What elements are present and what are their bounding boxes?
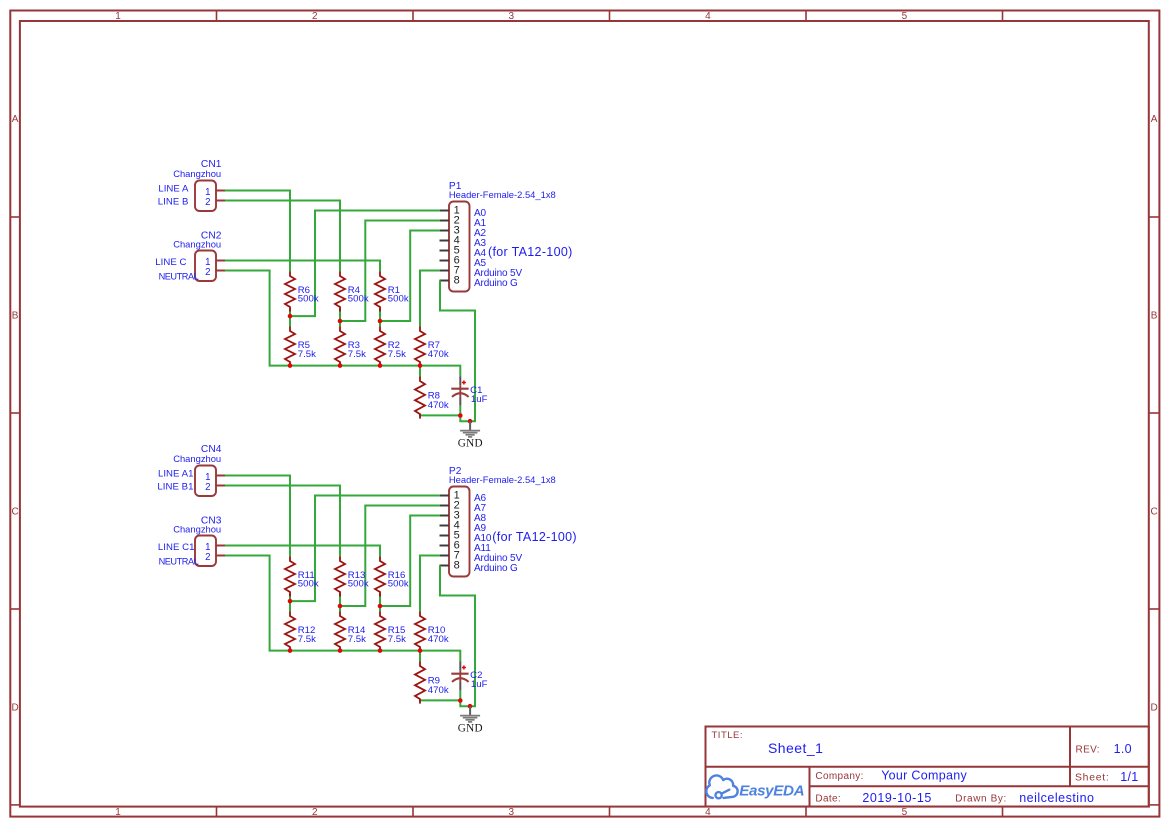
column tick 3 bottom bbox=[609, 807, 611, 817]
svg-text:LINE A: LINE A bbox=[158, 183, 189, 194]
svg-text:470k: 470k bbox=[428, 400, 449, 411]
column tick 1 bottom bbox=[216, 807, 218, 817]
svg-text:3: 3 bbox=[509, 11, 515, 22]
svg-text:7.5k: 7.5k bbox=[388, 349, 406, 360]
svg-text:500k: 500k bbox=[298, 579, 319, 590]
svg-text:1/1: 1/1 bbox=[1120, 770, 1138, 784]
svg-text:Changzhou: Changzhou bbox=[173, 239, 221, 250]
svg-text:1: 1 bbox=[115, 11, 121, 22]
junction bbox=[288, 648, 293, 653]
pin 7 of P1 bbox=[440, 270, 450, 272]
junction bbox=[378, 363, 383, 368]
capacitor C1 bbox=[459, 376, 461, 386]
svg-text:EasyEDA: EasyEDA bbox=[739, 782, 804, 799]
row tick B right bbox=[1149, 412, 1160, 414]
resistor R9 bbox=[415, 662, 425, 704]
junction bbox=[468, 419, 473, 424]
wire NEUTRAL to bottom rail bbox=[225, 556, 290, 651]
wire R1 lower lead bbox=[379, 309, 381, 327]
title block divider right of logo cell bbox=[809, 767, 811, 807]
connector CN2 bbox=[195, 251, 216, 282]
resistor R7 bbox=[415, 327, 425, 367]
wire LINE B1 to R13 bbox=[225, 486, 340, 557]
pin 2 of CN1 bbox=[216, 200, 225, 202]
svg-text:5: 5 bbox=[902, 807, 908, 818]
svg-text:2019-10-15: 2019-10-15 bbox=[862, 791, 931, 805]
wire P2 pin7 to R10 bbox=[420, 556, 440, 612]
resistor R16 bbox=[375, 557, 385, 597]
connector CN3 bbox=[195, 536, 216, 567]
svg-text:Sheet_1: Sheet_1 bbox=[768, 740, 823, 756]
svg-text:500k: 500k bbox=[388, 579, 409, 590]
title block divider left of REV column bbox=[1069, 727, 1071, 787]
pin 6 of P1 bbox=[440, 260, 450, 262]
svg-text:500k: 500k bbox=[298, 294, 319, 305]
column tick 4 top bbox=[805, 11, 807, 22]
pin 2 of P2 bbox=[440, 505, 450, 507]
wire LINE C1 to R16 bbox=[225, 546, 380, 557]
svg-text:470k: 470k bbox=[428, 634, 449, 645]
svg-text:Your Company: Your Company bbox=[881, 769, 967, 783]
junction bbox=[338, 648, 343, 653]
wire R8 to cap node bbox=[420, 414, 460, 417]
svg-text:2: 2 bbox=[205, 552, 210, 563]
svg-text:GND: GND bbox=[458, 723, 483, 735]
wire cap C1 bottom to ground node bbox=[460, 406, 470, 422]
wire P1 pin3 to node bbox=[380, 231, 440, 322]
junction bbox=[288, 599, 293, 604]
wire NEUTRAL to bottom rail bbox=[225, 271, 290, 366]
svg-text:Header-Female-2.54_1x8: Header-Female-2.54_1x8 bbox=[449, 189, 556, 200]
svg-text:Header-Female-2.54_1x8: Header-Female-2.54_1x8 bbox=[449, 474, 556, 485]
header P1 bbox=[449, 202, 470, 292]
svg-text:B: B bbox=[12, 311, 19, 322]
wire LINE B to R4 bbox=[225, 201, 340, 272]
resistor R5 bbox=[285, 327, 295, 367]
pin 5 of P2 bbox=[440, 535, 450, 537]
resistor R14 bbox=[335, 612, 345, 652]
svg-text:1: 1 bbox=[115, 807, 121, 818]
junction bbox=[458, 698, 463, 703]
svg-text:4: 4 bbox=[705, 11, 711, 22]
svg-text:LINE A1: LINE A1 bbox=[158, 468, 194, 479]
resistor R1 bbox=[375, 272, 385, 312]
pin 2 of CN3 bbox=[216, 555, 225, 557]
pin 1 of CN1 bbox=[216, 190, 225, 192]
resistor R11 bbox=[285, 557, 295, 597]
svg-text:2: 2 bbox=[312, 11, 318, 22]
resistor R4 bbox=[335, 272, 345, 312]
wire P1 pin8 to ground bbox=[440, 281, 475, 422]
EasyEDA logo cloud bbox=[706, 775, 737, 798]
svg-text:B: B bbox=[1151, 311, 1158, 322]
svg-text:1uF: 1uF bbox=[471, 394, 488, 405]
svg-text:TITLE:: TITLE: bbox=[712, 730, 744, 741]
wire bottom rail bbox=[290, 648, 460, 661]
wire R16 lower lead bbox=[379, 594, 381, 612]
wire P1 pin1 to node bbox=[290, 211, 440, 317]
junction bbox=[418, 648, 423, 653]
column tick 2 top bbox=[412, 11, 414, 22]
resistor R8 bbox=[415, 377, 425, 419]
svg-text:GND: GND bbox=[458, 438, 483, 450]
svg-text:Company:: Company: bbox=[815, 771, 863, 782]
svg-text:4: 4 bbox=[705, 807, 711, 818]
svg-text:Drawn By:: Drawn By: bbox=[955, 793, 1007, 804]
wire P2 pin2 to node bbox=[340, 506, 440, 607]
pin 1 of P2 bbox=[440, 495, 450, 497]
pin 2 of P1 bbox=[440, 220, 450, 222]
wire LINE A to R6 bbox=[225, 191, 290, 272]
svg-text:Changzhou: Changzhou bbox=[173, 524, 221, 535]
column tick 2 bottom bbox=[412, 807, 414, 817]
connector CN1 bbox=[195, 181, 216, 212]
svg-text:Changzhou: Changzhou bbox=[173, 453, 221, 464]
column tick 5 bottom bbox=[1002, 807, 1004, 817]
junction bbox=[338, 604, 343, 609]
junction bbox=[458, 413, 463, 418]
svg-text:1uF: 1uF bbox=[471, 679, 488, 690]
pin 7 of P2 bbox=[440, 555, 450, 557]
wire R7 bottom bbox=[419, 363, 421, 377]
junction bbox=[338, 363, 343, 368]
pin 8 of P2 bbox=[440, 565, 450, 567]
pin 3 of P1 bbox=[440, 230, 450, 232]
wire R4 lower lead bbox=[339, 309, 341, 327]
row tick D left bbox=[10, 804, 20, 806]
svg-text:Arduino G: Arduino G bbox=[474, 563, 518, 574]
svg-text:C: C bbox=[11, 507, 18, 518]
svg-text:A: A bbox=[12, 114, 19, 125]
column tick 5 top bbox=[1002, 11, 1004, 22]
svg-text:LINE C: LINE C bbox=[155, 257, 186, 268]
svg-text:2: 2 bbox=[312, 807, 318, 818]
svg-text:(for TA12-100): (for TA12-100) bbox=[492, 530, 577, 544]
svg-text:Sheet:: Sheet: bbox=[1075, 773, 1110, 784]
pin 2 of CN4 bbox=[216, 485, 225, 487]
svg-text:neilcelestino: neilcelestino bbox=[1019, 791, 1094, 805]
junction bbox=[378, 319, 383, 324]
svg-text:7.5k: 7.5k bbox=[298, 634, 316, 645]
column tick 3 top bbox=[609, 11, 611, 22]
ground bbox=[469, 706, 471, 715]
svg-text:D: D bbox=[11, 703, 18, 714]
svg-text:LINE B: LINE B bbox=[158, 196, 189, 207]
wire R13 lower lead bbox=[339, 594, 341, 612]
title block divider under title row bbox=[706, 766, 1149, 768]
svg-text:NEUTRAL: NEUTRAL bbox=[159, 271, 199, 281]
svg-text:7.5k: 7.5k bbox=[348, 634, 366, 645]
header P2 bbox=[449, 487, 470, 577]
junction bbox=[288, 314, 293, 319]
svg-text:A: A bbox=[1151, 114, 1158, 125]
pin 1 of CN2 bbox=[216, 260, 225, 262]
wire cap C2 bottom to ground node bbox=[460, 691, 470, 707]
wire R14 bottom bbox=[339, 648, 341, 651]
row tick C right bbox=[1149, 608, 1160, 610]
resistor R2 bbox=[375, 327, 385, 367]
pin 4 of P2 bbox=[440, 525, 450, 527]
svg-text:7.5k: 7.5k bbox=[388, 634, 406, 645]
svg-text:Date:: Date: bbox=[815, 793, 841, 804]
svg-text:5: 5 bbox=[902, 11, 908, 22]
pin 1 of CN4 bbox=[216, 475, 225, 477]
svg-text:2: 2 bbox=[205, 482, 210, 493]
junction bbox=[378, 604, 383, 609]
wire bottom rail bbox=[290, 363, 460, 376]
junction bbox=[468, 704, 473, 709]
svg-text:D: D bbox=[1150, 703, 1157, 714]
pin 5 of P1 bbox=[440, 250, 450, 252]
svg-text:LINE B1: LINE B1 bbox=[157, 481, 193, 492]
svg-text:Changzhou: Changzhou bbox=[173, 168, 221, 179]
resistor R15 bbox=[375, 612, 385, 652]
column tick 1 top bbox=[216, 11, 218, 22]
svg-text:C: C bbox=[1150, 507, 1157, 518]
svg-text:Arduino G: Arduino G bbox=[474, 278, 518, 289]
row tick C left bbox=[10, 608, 20, 610]
wire R10 bottom bbox=[419, 648, 421, 662]
wire R2 bottom bbox=[379, 363, 381, 366]
svg-text:8: 8 bbox=[454, 275, 460, 287]
resistor R13 bbox=[335, 557, 345, 597]
title block frame bbox=[706, 727, 1149, 807]
column tick 4 bottom bbox=[805, 807, 807, 817]
wire LINE A1 to R11 bbox=[225, 476, 290, 557]
pin 1 of CN3 bbox=[216, 545, 225, 547]
row tick B left bbox=[10, 412, 20, 414]
svg-text:(for TA12-100): (for TA12-100) bbox=[488, 245, 573, 259]
svg-text:LINE C1: LINE C1 bbox=[158, 542, 195, 553]
resistor R3 bbox=[335, 327, 345, 367]
connector CN4 bbox=[195, 466, 216, 497]
svg-text:3: 3 bbox=[509, 807, 515, 818]
svg-text:2: 2 bbox=[205, 267, 210, 278]
junction bbox=[418, 363, 423, 368]
wire R3 bottom bbox=[339, 363, 341, 366]
pin 3 of P2 bbox=[440, 515, 450, 517]
wire R15 bottom bbox=[379, 648, 381, 651]
svg-text:470k: 470k bbox=[428, 685, 449, 696]
row tick D right bbox=[1149, 804, 1160, 806]
wire P2 pin1 to node bbox=[290, 496, 440, 602]
resistor R12 bbox=[285, 612, 295, 652]
capacitor C2 bbox=[459, 661, 461, 671]
row tick A left bbox=[10, 216, 20, 218]
pin 6 of P2 bbox=[440, 545, 450, 547]
junction bbox=[288, 363, 293, 368]
pin 2 of CN2 bbox=[216, 270, 225, 272]
wire P1 pin2 to node bbox=[340, 221, 440, 322]
svg-text:500k: 500k bbox=[388, 294, 409, 305]
junction bbox=[338, 319, 343, 324]
wire R9 to cap node bbox=[420, 699, 460, 702]
ground bbox=[469, 421, 471, 430]
pin 4 of P1 bbox=[440, 240, 450, 242]
resistor R10 bbox=[415, 612, 425, 652]
title block divider under company row bbox=[810, 785, 1149, 787]
wire R6 lower lead bbox=[289, 309, 291, 327]
svg-text:7.5k: 7.5k bbox=[348, 349, 366, 360]
junction bbox=[378, 648, 383, 653]
pin 1 of P1 bbox=[440, 210, 450, 212]
svg-text:7.5k: 7.5k bbox=[298, 349, 316, 360]
wire P2 pin3 to node bbox=[380, 516, 440, 607]
svg-text:2: 2 bbox=[205, 197, 210, 208]
svg-text:470k: 470k bbox=[428, 349, 449, 360]
svg-text:500k: 500k bbox=[348, 579, 369, 590]
svg-text:500k: 500k bbox=[348, 294, 369, 305]
wire R11 lower lead bbox=[289, 594, 291, 612]
svg-text:NEUTRAL: NEUTRAL bbox=[159, 556, 199, 566]
pin 8 of P1 bbox=[440, 280, 450, 282]
resistor R6 bbox=[285, 272, 295, 312]
svg-text:REV:: REV: bbox=[1076, 744, 1100, 755]
svg-text:8: 8 bbox=[454, 560, 460, 572]
row tick A right bbox=[1149, 216, 1160, 218]
wire P1 pin7 to R7 bbox=[420, 271, 440, 327]
wire P2 pin8 to ground bbox=[440, 566, 475, 707]
wire LINE C to R1 bbox=[225, 261, 380, 272]
svg-text:1.0: 1.0 bbox=[1114, 742, 1132, 756]
